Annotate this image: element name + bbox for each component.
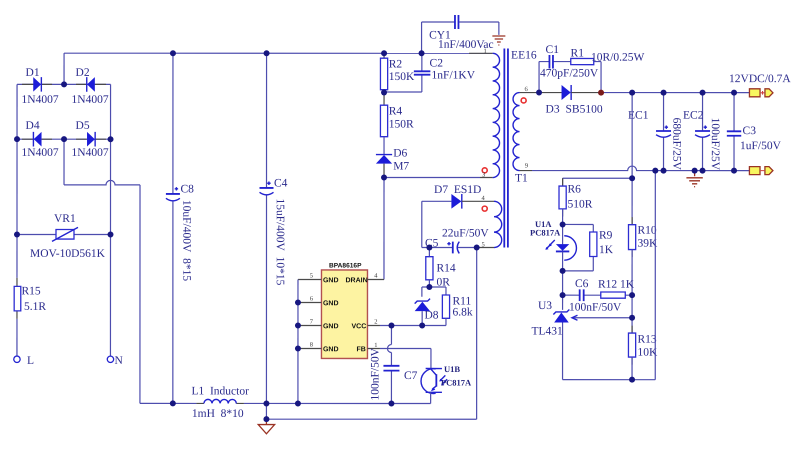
node gnd bus pin8 bbox=[295, 345, 301, 351]
wire +HV top rail bbox=[64, 52, 493, 54]
node C5 R14 bbox=[426, 245, 432, 251]
U1 pin 7 GND bbox=[298, 318, 339, 330]
U1B collector lead bbox=[426, 369, 442, 376]
svg-text:D7 ES1D: D7 ES1D bbox=[434, 184, 481, 196]
wire bridge right column to N bbox=[109, 84, 111, 355]
diode D7 bbox=[451, 194, 461, 209]
node R6 branch bbox=[629, 175, 635, 181]
node U1A top bbox=[560, 221, 566, 227]
wire 0V output rail with hop over divider bbox=[532, 166, 749, 171]
wire C3 branch bbox=[733, 93, 735, 171]
connector output minus bbox=[749, 167, 773, 175]
svg-text:150K: 150K bbox=[389, 71, 415, 83]
svg-text:GND: GND bbox=[323, 300, 339, 307]
node rail C7 bbox=[388, 400, 394, 406]
resistor R4 bbox=[380, 105, 387, 137]
wire U1A anode bbox=[562, 224, 564, 244]
svg-text:1: 1 bbox=[374, 342, 377, 349]
CY1 plates bbox=[455, 15, 459, 29]
svg-text:R15: R15 bbox=[21, 285, 40, 297]
U1 pin 8 GND bbox=[298, 341, 339, 353]
diode D5 bbox=[87, 132, 95, 147]
wire R6 bottom to U1A bbox=[562, 209, 564, 225]
capacitor CY1 bbox=[422, 15, 499, 53]
svg-text:EC1: EC1 bbox=[628, 110, 649, 122]
svg-text:M7: M7 bbox=[393, 160, 409, 172]
wire drain riser bbox=[383, 177, 385, 279]
svg-text:FB: FB bbox=[356, 346, 365, 353]
U1A led triangle bbox=[556, 244, 569, 251]
wire primary pin3 stub bbox=[480, 177, 493, 179]
node lower return left bbox=[263, 416, 269, 422]
svg-text:R10: R10 bbox=[637, 225, 656, 237]
ground earth symbol at output bbox=[686, 171, 702, 187]
wire bottom minus rail left of L1 bbox=[140, 402, 197, 404]
svg-text:C8: C8 bbox=[181, 183, 195, 195]
capacitor C4 bbox=[260, 182, 274, 195]
svg-text:D6: D6 bbox=[393, 147, 407, 159]
svg-text:D4: D4 bbox=[26, 120, 40, 132]
resistor R12 bbox=[601, 292, 626, 298]
svg-text:10uF/400V 8*15: 10uF/400V 8*15 bbox=[180, 200, 192, 281]
svg-text:R14: R14 bbox=[436, 263, 455, 275]
diode D3 bbox=[562, 85, 572, 100]
wire R11 bottom bbox=[445, 318, 447, 325]
svg-text:1: 1 bbox=[484, 48, 487, 55]
svg-text:VR1: VR1 bbox=[54, 213, 76, 225]
opto LED U1A bbox=[545, 224, 576, 295]
wire drain node to primary bottom bbox=[384, 176, 480, 178]
node rail C4 bottom bbox=[263, 400, 269, 406]
wire D3 cathode stub bbox=[571, 92, 601, 94]
node VR1 right bbox=[107, 231, 113, 237]
U1 pin 1 FB bbox=[356, 342, 380, 353]
U1A led bar bbox=[556, 250, 569, 252]
svg-text:R6: R6 bbox=[568, 184, 582, 196]
svg-text:GND: GND bbox=[323, 277, 339, 284]
U1B envelope arc bbox=[421, 369, 436, 394]
resistor R2 bbox=[380, 58, 387, 90]
svg-text:150R: 150R bbox=[389, 118, 414, 130]
svg-text:TL431: TL431 bbox=[531, 326, 563, 338]
wire T1 pin9 stub bbox=[520, 170, 533, 172]
wire R14 bottom to clamp pair bbox=[422, 280, 446, 297]
capacitor EC2 bbox=[695, 93, 710, 171]
node rail C8 bottom bbox=[170, 400, 176, 406]
wire D6 anode to drain node bbox=[383, 164, 385, 178]
resistor R11 bbox=[442, 295, 449, 318]
svg-text:BPA8616P: BPA8616P bbox=[329, 262, 362, 269]
svg-text:22uF/50V: 22uF/50V bbox=[442, 228, 489, 240]
svg-text:T1: T1 bbox=[515, 173, 528, 185]
capacitor C8 bbox=[166, 187, 180, 201]
svg-text:1K: 1K bbox=[599, 244, 614, 256]
svg-text:100nF/50V: 100nF/50V bbox=[369, 347, 381, 400]
svg-text:1N4007: 1N4007 bbox=[72, 94, 109, 106]
capacitor C1 bbox=[549, 55, 553, 69]
varistor VR1 bbox=[52, 227, 78, 241]
node U1A bottom bbox=[560, 268, 566, 274]
op-amp U1 BPA8616P body bbox=[321, 270, 367, 359]
node 0V feedback return bbox=[652, 168, 658, 174]
svg-text:1uF/50V: 1uF/50V bbox=[740, 140, 782, 152]
node top rail C4 bbox=[264, 50, 270, 56]
wire D3 anode stub bbox=[539, 92, 562, 94]
wire bridge left column bbox=[16, 84, 18, 234]
wire L1 stubs bbox=[196, 402, 244, 404]
svg-text:D3: D3 bbox=[546, 104, 560, 116]
varistor VR1 wire row bbox=[17, 233, 111, 235]
terminal N bbox=[107, 356, 113, 362]
wire bridge top row bbox=[17, 83, 110, 85]
transformer T1 secondary winding bbox=[513, 93, 520, 171]
node VCC riser bbox=[388, 322, 394, 328]
node bridge bottom center bbox=[61, 136, 67, 142]
wire bridge top row pin stubs bbox=[22, 83, 106, 85]
wire +12V output rail bbox=[601, 92, 749, 94]
svg-text:6.8k: 6.8k bbox=[452, 307, 472, 319]
svg-text:R12 1K: R12 1K bbox=[598, 279, 635, 291]
svg-text:5: 5 bbox=[310, 272, 313, 279]
svg-text:C2: C2 bbox=[430, 58, 444, 70]
U1A envelope arc bbox=[564, 236, 576, 260]
node bridge bottom right bbox=[108, 136, 114, 142]
transformer T1 auxiliary winding bbox=[494, 201, 502, 247]
wire D8 anode down bbox=[421, 311, 423, 325]
wire C8 branch bbox=[172, 53, 174, 403]
resistor R15 bbox=[14, 286, 21, 311]
U1 pin 2 VCC bbox=[351, 318, 380, 330]
node top rail C2 CY1 bbox=[419, 50, 425, 56]
node divider ref row bbox=[629, 315, 635, 321]
svg-text:GND: GND bbox=[323, 323, 339, 330]
svg-text:EE16: EE16 bbox=[511, 50, 537, 62]
wire bridge bottom row pin stubs bbox=[22, 138, 106, 140]
wire VCC riser with hop over FB then to C7 bbox=[387, 325, 391, 403]
wire R4 bottom to D6 bbox=[383, 137, 385, 155]
svg-text:U1B: U1B bbox=[444, 364, 460, 374]
resistor R14 bbox=[426, 257, 433, 280]
U1B photo arrows bbox=[440, 375, 447, 384]
node bridge top center bbox=[61, 81, 67, 87]
capacitor C5 bbox=[447, 242, 459, 254]
node T1 pin6 snubber bbox=[536, 90, 542, 96]
wire minus bus jog with hop over N column bbox=[64, 139, 140, 403]
svg-text:680uF/25V: 680uF/25V bbox=[670, 118, 682, 171]
node 0V earth bbox=[692, 168, 698, 174]
node gnd bus pin6 bbox=[295, 299, 301, 305]
node +12V divider bbox=[629, 90, 635, 96]
wire FB net to opto collector bbox=[380, 348, 431, 368]
svg-text:D1: D1 bbox=[26, 67, 40, 79]
wire T1 pin5 stub bbox=[477, 247, 494, 249]
wire U1B emitter riser bbox=[430, 393, 432, 404]
wire R13 bottom bbox=[631, 357, 633, 380]
svg-text:N: N bbox=[114, 355, 123, 367]
svg-text:R2: R2 bbox=[389, 58, 403, 70]
transformer T1 core bbox=[504, 49, 508, 248]
ground power symbol bbox=[258, 419, 274, 434]
svg-text:510R: 510R bbox=[568, 199, 593, 211]
node +12V EC2 bbox=[700, 90, 706, 96]
node gnd bus rail bbox=[295, 400, 301, 406]
node +12V C3 bbox=[731, 90, 737, 96]
wire T1 pin6 stub bbox=[520, 92, 540, 94]
svg-text:1nF/1KV: 1nF/1KV bbox=[432, 70, 476, 82]
svg-text:EC2: EC2 bbox=[683, 110, 704, 122]
wire snubber loop bbox=[539, 62, 601, 93]
resistor R9 bbox=[590, 232, 597, 257]
node drain primary junction bbox=[381, 174, 387, 180]
svg-text:PC817A: PC817A bbox=[530, 228, 561, 238]
resistor R1 bbox=[571, 58, 594, 64]
svg-text:2: 2 bbox=[374, 318, 377, 325]
svg-text:470pF/250V: 470pF/250V bbox=[540, 68, 599, 80]
wire EC2 branch bbox=[702, 93, 704, 171]
wire primary pin1 stub bbox=[469, 52, 493, 54]
terminal L bbox=[14, 356, 20, 362]
svg-text:SB5100: SB5100 bbox=[566, 104, 603, 116]
capacitor C2 bbox=[414, 71, 431, 74]
svg-text:10R/0.25W: 10R/0.25W bbox=[591, 52, 644, 64]
node VR1 left bbox=[14, 231, 20, 237]
U1A photo arrows bbox=[546, 240, 555, 249]
diode D6 bbox=[376, 155, 392, 164]
svg-text:D5: D5 bbox=[76, 120, 90, 132]
wire U3 cathode bbox=[562, 295, 564, 310]
wire C5 row bbox=[422, 247, 477, 249]
node bridge bottom left bbox=[14, 136, 20, 142]
wire lower return line bbox=[266, 247, 476, 419]
svg-text:1mH 8*10: 1mH 8*10 bbox=[192, 408, 244, 420]
zener diode D8 bbox=[415, 299, 430, 312]
svg-text:R9: R9 bbox=[599, 230, 613, 242]
U1 pin 4 DRAIN bbox=[345, 272, 384, 284]
node 0V C3 bbox=[731, 168, 737, 174]
wire D7 anode net bbox=[422, 201, 452, 247]
svg-text:12VDC/0.7A: 12VDC/0.7A bbox=[729, 73, 791, 85]
node divider C6 row bbox=[629, 292, 635, 298]
wire CY1 left leg bbox=[422, 22, 455, 53]
svg-text:VCC: VCC bbox=[351, 323, 366, 330]
svg-text:C6: C6 bbox=[575, 278, 589, 290]
wire U1A cathode bbox=[562, 252, 564, 296]
svg-text:PC817A: PC817A bbox=[441, 378, 472, 388]
U1 pin 5 GND bbox=[298, 272, 339, 284]
wire R6 branch bbox=[563, 178, 633, 186]
svg-text:GND: GND bbox=[323, 346, 339, 353]
svg-text:C1: C1 bbox=[546, 44, 560, 56]
wire U3 anode bbox=[562, 323, 564, 380]
wire C2 branch bbox=[384, 53, 422, 92]
svg-text:8: 8 bbox=[310, 341, 313, 348]
diode D2 bbox=[87, 77, 95, 92]
svg-text:1N4007: 1N4007 bbox=[72, 147, 109, 159]
svg-text:R4: R4 bbox=[389, 105, 403, 117]
svg-text:D2: D2 bbox=[76, 67, 90, 79]
wire D7 cathode stub to T1 pin4 bbox=[462, 200, 494, 202]
svg-text:9: 9 bbox=[525, 163, 528, 170]
T1 polarity dot secondary bbox=[521, 98, 526, 103]
svg-text:3: 3 bbox=[482, 172, 485, 179]
svg-text:L1 Inductor: L1 Inductor bbox=[191, 385, 249, 397]
node 0V EC2 bbox=[700, 168, 706, 174]
wire R9 branch bbox=[563, 224, 594, 270]
shunt regulator U3 TL431 bbox=[553, 295, 632, 380]
node D8 anode VCC bbox=[419, 323, 425, 329]
svg-text:100nF/50V: 100nF/50V bbox=[569, 302, 622, 314]
svg-text:DRAIN: DRAIN bbox=[345, 277, 367, 284]
node gnd bus pin7 bbox=[295, 322, 301, 328]
wire bridge bottom row bbox=[17, 138, 110, 140]
capacitor C7 bbox=[383, 366, 399, 371]
svg-text:15uF/400V 10*15: 15uF/400V 10*15 bbox=[274, 198, 286, 285]
svg-text:R13: R13 bbox=[637, 334, 656, 346]
node R2 C2 junction bbox=[381, 89, 387, 95]
U1 pin 6 GND bbox=[298, 295, 339, 307]
resistor R13 bbox=[631, 326, 633, 365]
wire bridge plus riser bbox=[63, 53, 65, 84]
wire R2 bottom to R4 top bbox=[383, 90, 385, 106]
U3 ref arrow bbox=[572, 317, 632, 319]
wire divider column from +12V rail bbox=[631, 93, 633, 225]
node C5 right bbox=[474, 245, 480, 251]
svg-text:U3: U3 bbox=[538, 300, 552, 312]
wire C5 to R14 bbox=[428, 248, 430, 257]
wire EC1 branch bbox=[663, 93, 665, 171]
wire R2 top stub bbox=[383, 53, 385, 58]
transformer T1 primary winding bbox=[493, 53, 500, 177]
svg-text:1N4007: 1N4007 bbox=[22, 147, 59, 159]
U1B base bar bbox=[435, 374, 437, 386]
svg-text:D8: D8 bbox=[424, 310, 438, 322]
svg-text:5.1R: 5.1R bbox=[24, 301, 46, 313]
opto transistor U1B bbox=[421, 369, 447, 394]
wire CY1 right leg bbox=[459, 22, 499, 35]
inductor L1 bbox=[204, 399, 236, 403]
diode D4 bbox=[33, 132, 41, 147]
node 0V EC1 bbox=[661, 168, 667, 174]
diode D1 bbox=[33, 77, 41, 92]
node top rail R2 bbox=[381, 50, 387, 56]
node +12V EC1 bbox=[661, 90, 667, 96]
node feedback bottom bbox=[629, 377, 635, 383]
svg-text:MOV-10D561K: MOV-10D561K bbox=[30, 248, 106, 260]
svg-text:C7: C7 bbox=[404, 370, 418, 382]
U3 cathode bar bbox=[553, 309, 569, 314]
node C6 row left bbox=[560, 292, 566, 298]
node snubber right red bbox=[598, 90, 604, 96]
resistor R6 bbox=[562, 178, 564, 216]
wire R10 bottom to R13 top bbox=[631, 250, 633, 334]
resistor R10 bbox=[631, 217, 633, 257]
capacitor C6 bbox=[580, 289, 584, 301]
wire VCC net bbox=[380, 324, 446, 326]
svg-text:1N4007: 1N4007 bbox=[22, 94, 59, 106]
node top rail C8 bbox=[170, 50, 176, 56]
wire feedback bottom return bbox=[563, 171, 656, 380]
svg-text:R1: R1 bbox=[571, 48, 585, 60]
node R14 clamp top bbox=[426, 284, 432, 290]
svg-text:C3: C3 bbox=[743, 125, 757, 137]
wire C6 R12 row bbox=[563, 294, 633, 296]
svg-text:C4: C4 bbox=[274, 177, 288, 189]
wire U1 gnd bus bbox=[297, 279, 299, 403]
capacitor EC1 bbox=[656, 93, 671, 171]
T1 polarity dot auxiliary bbox=[482, 206, 487, 211]
wire R15 to L terminal bbox=[16, 319, 18, 356]
ground earth symbol at CY1 bbox=[492, 36, 505, 45]
wire C4 branch bbox=[265, 53, 267, 403]
svg-text:L: L bbox=[27, 355, 34, 367]
wire bottom minus rail right of L1 bbox=[244, 402, 431, 404]
U1B emitter with arrow bbox=[426, 386, 442, 393]
U3 triangle bbox=[554, 312, 569, 322]
connector output plus bbox=[749, 89, 773, 97]
wire left column to R15 bbox=[16, 234, 18, 277]
T1 polarity dot primary bbox=[482, 168, 487, 173]
svg-text:100uF/25V: 100uF/25V bbox=[709, 118, 721, 171]
capacitor C3 bbox=[727, 93, 741, 171]
